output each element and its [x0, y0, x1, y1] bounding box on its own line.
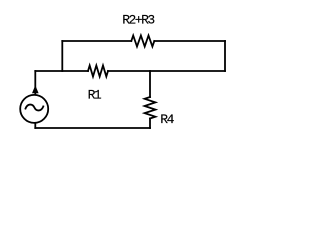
wire R4 bottom lead [149, 119, 151, 129]
node arrow current direction [32, 85, 39, 93]
source V1 sine symbol [26, 105, 44, 111]
resistor R2+R3 [131, 36, 154, 47]
resistor R1 [88, 66, 108, 77]
wire top rail left segment [62, 40, 131, 42]
wire R4 top lead [149, 71, 151, 97]
wire top rail right segment [154, 40, 225, 42]
wire middle rail right segment [108, 70, 225, 72]
svg-text:R1: R1 [88, 88, 102, 103]
source V1 AC circle [20, 95, 48, 123]
wire left vertical branch [61, 41, 63, 71]
wire bottom rail [35, 127, 150, 129]
svg-text:R2+R3: R2+R3 [122, 12, 154, 27]
resistor R4 [145, 97, 156, 119]
wire right vertical branch [224, 41, 226, 71]
wire source top lead [34, 71, 36, 94]
svg-text:R4: R4 [160, 112, 174, 127]
wire source bottom lead [34, 123, 36, 128]
wire middle rail left segment [35, 70, 88, 72]
